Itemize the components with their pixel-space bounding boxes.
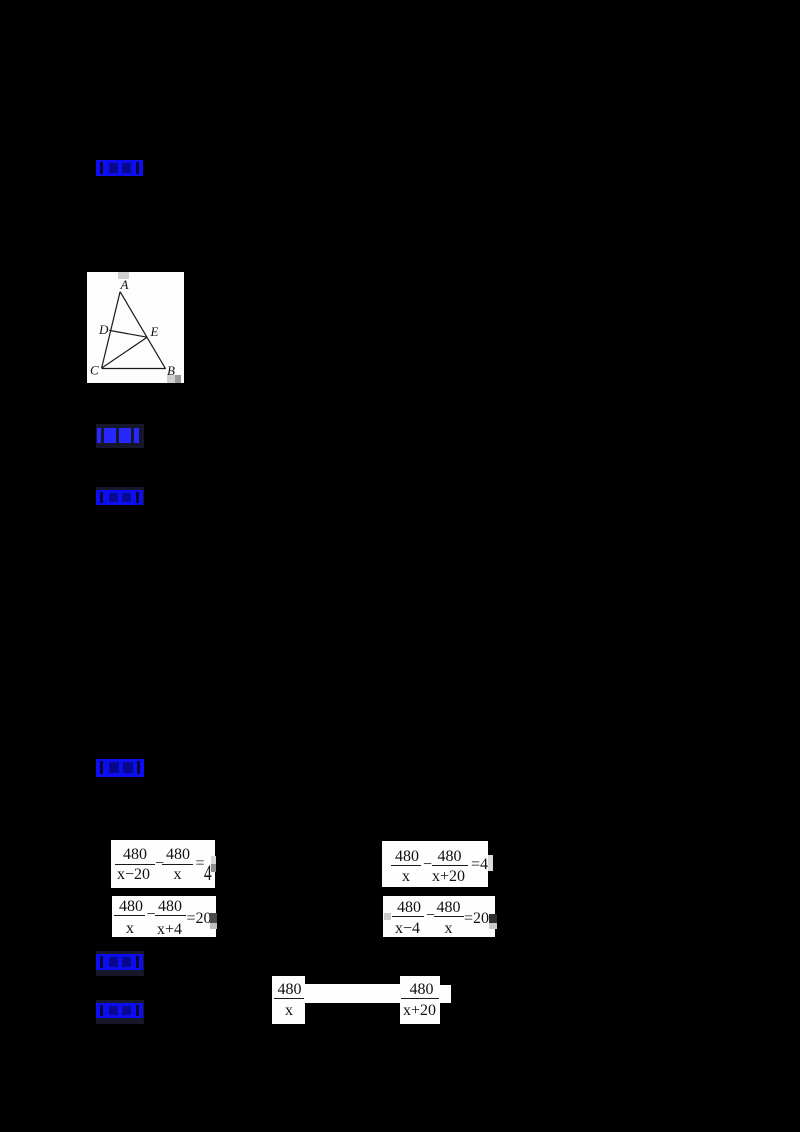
wire: side CB (102, 368, 166, 370)
geometry diagram box (87, 272, 184, 383)
equation box 1: 480/(x-20) - 480/x = 4 (111, 840, 215, 888)
gray artifact bottom right (167, 375, 179, 383)
gray artifact top (118, 272, 129, 279)
label 【答案】 (blue highlight, q2) (96, 759, 144, 777)
wire: side AB (120, 292, 166, 369)
fraction box A: 480/x (272, 976, 305, 1024)
label 【分析】 (q2, blue highlight in dark box) (96, 951, 144, 976)
fraction box B: 480/(x+20) (400, 976, 440, 1025)
label 【详解】 (q2, blue highlight in dark box) (96, 1000, 144, 1024)
label 【答案】 (blue highlight, q1) (96, 160, 143, 176)
cursor block after eq1 (211, 856, 216, 864)
wire: side AC (102, 292, 121, 368)
svg-text:B: B (167, 363, 175, 378)
wire: segment DE (109, 330, 147, 337)
cursor block after eq4 (489, 914, 497, 923)
white strip between fractions (305, 984, 400, 1003)
cursor block after eq3 (210, 913, 217, 923)
wire: segment CE (102, 337, 148, 368)
svg-text:A: A (120, 277, 129, 292)
label 【分析】 (blue text on dark box, q1) (96, 424, 144, 448)
equation box 3: 480/x - 480/(x+4) = 20 (112, 896, 216, 938)
label 【详解】 (blue highlight, q1) (96, 487, 144, 505)
cursor tail after eq2 (488, 855, 493, 871)
equation box 2: 480/x - 480/(x+20) = 4 (382, 841, 488, 887)
white strip tail right of fraction B (440, 985, 451, 1003)
svg-text:D: D (98, 322, 109, 337)
svg-text:E: E (150, 324, 159, 339)
svg-text:C: C (90, 363, 99, 378)
equation box 4: 480/(x-4) - 480/x = 20 (383, 896, 495, 937)
